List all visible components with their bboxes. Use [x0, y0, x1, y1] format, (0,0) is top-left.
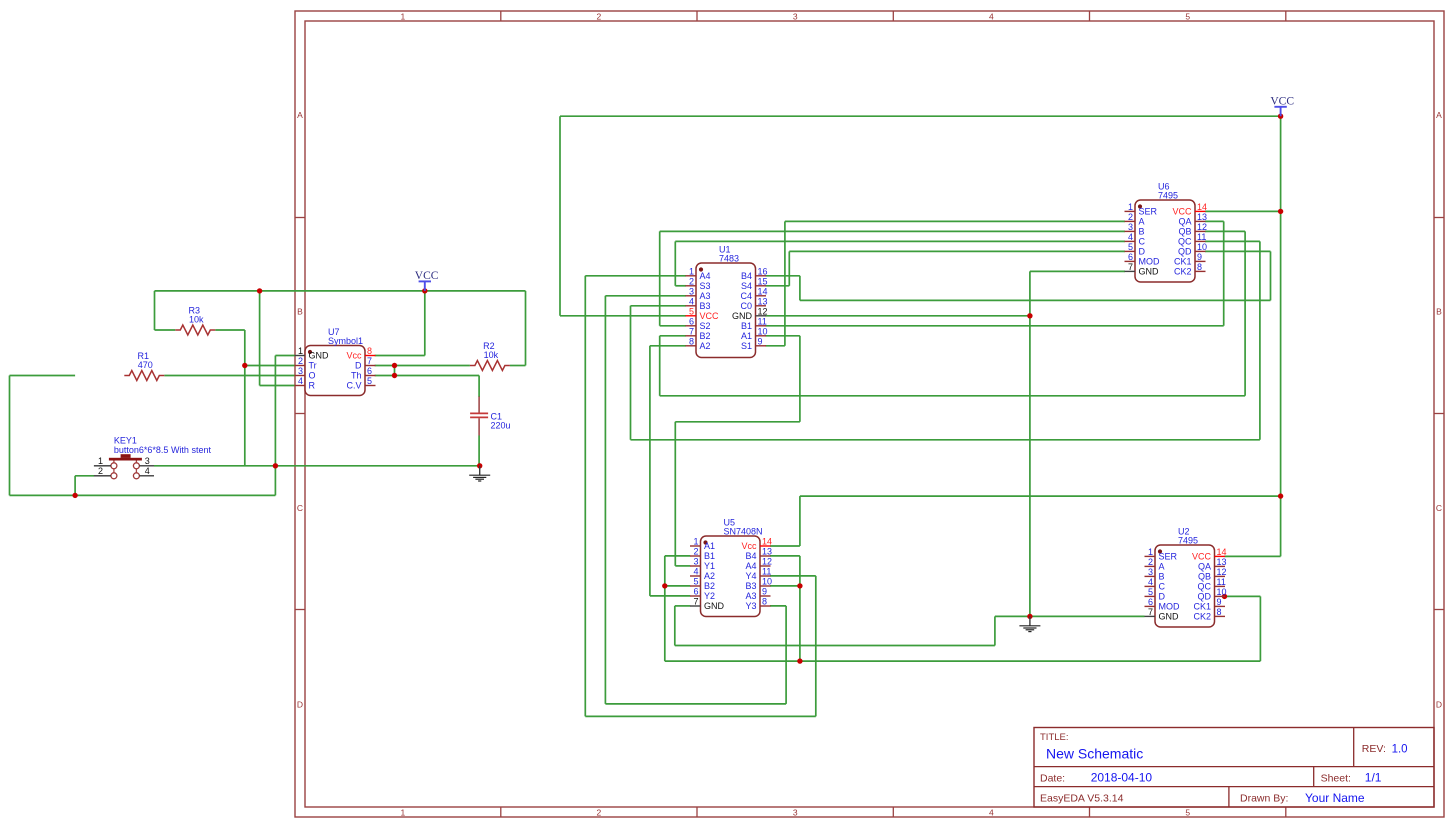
wire A4-Y4 bottom	[585, 715, 816, 717]
svg-text:7: 7	[689, 326, 694, 336]
svg-text:4: 4	[693, 567, 698, 577]
wire Y4 vertical	[815, 576, 817, 717]
wire U1 A1 pin10	[766, 335, 800, 337]
svg-text:1: 1	[689, 266, 694, 276]
svg-text:Y1: Y1	[704, 561, 715, 571]
svg-text:10: 10	[1197, 242, 1207, 252]
junction U5 Vcc feed	[1278, 493, 1283, 498]
frame column ticks bottom	[500, 807, 502, 817]
svg-text:14: 14	[762, 537, 772, 547]
ground GND near C1	[469, 466, 490, 481]
svg-text:2: 2	[1148, 557, 1153, 567]
svg-text:C.V: C.V	[346, 381, 361, 391]
wire gnd rail riser	[274, 466, 276, 496]
svg-text:9: 9	[762, 587, 767, 597]
svg-text:10k: 10k	[484, 350, 499, 360]
junction VCC flag right	[1278, 114, 1283, 119]
svg-text:12: 12	[1197, 222, 1207, 232]
wire KEY pin3 to ground rail	[154, 465, 480, 467]
svg-text:4: 4	[989, 808, 994, 818]
svg-text:3: 3	[1148, 567, 1153, 577]
IC U6	[1125, 182, 1208, 283]
wire U1 pin5 VCC	[560, 315, 686, 317]
junction U5 B1-B2	[662, 583, 667, 588]
svg-text:3: 3	[689, 286, 694, 296]
junction VCC left rail	[257, 288, 262, 293]
wire U7 pin4 R vertical	[259, 291, 261, 386]
svg-text:GND: GND	[1159, 612, 1180, 622]
pushbutton KEY1	[94, 436, 212, 479]
svg-text:QC: QC	[1178, 237, 1192, 247]
wire U5 B1 pin2	[665, 555, 690, 557]
svg-text:GND: GND	[704, 601, 725, 611]
svg-text:TITLE:: TITLE:	[1040, 732, 1069, 743]
svg-text:B: B	[1436, 307, 1442, 317]
ground GND main	[1019, 616, 1040, 631]
svg-text:CK1: CK1	[1174, 257, 1192, 267]
svg-text:4: 4	[145, 466, 150, 476]
svg-text:12: 12	[1217, 567, 1227, 577]
svg-text:SER: SER	[1139, 207, 1158, 217]
svg-text:QC: QC	[1198, 582, 1212, 592]
svg-text:S3: S3	[700, 281, 711, 291]
wire U5 GND link	[995, 615, 1030, 617]
svg-text:1: 1	[401, 808, 406, 818]
wire A2-Y2 vertical	[649, 346, 651, 596]
svg-text:Tr: Tr	[309, 361, 317, 371]
svg-text:6: 6	[693, 587, 698, 597]
wire U6 D pin5	[789, 250, 1125, 252]
junction U5 B4-B3	[797, 583, 802, 588]
svg-text:1.0: 1.0	[1392, 744, 1408, 756]
wire U6 A pin2	[785, 220, 1125, 222]
svg-text:13: 13	[1197, 212, 1207, 222]
svg-text:5: 5	[1185, 12, 1190, 22]
svg-text:3: 3	[145, 456, 150, 466]
svg-text:5: 5	[689, 306, 694, 316]
svg-text:9: 9	[758, 336, 763, 346]
wire R2 top vertical	[525, 291, 527, 366]
svg-text:Drawn By:: Drawn By:	[1240, 793, 1288, 805]
junction D tie	[392, 363, 397, 368]
wire U6 QC pin11	[1205, 240, 1260, 242]
svg-text:7: 7	[693, 597, 698, 607]
svg-text:3: 3	[793, 808, 798, 818]
svg-text:2: 2	[1128, 212, 1133, 222]
svg-text:6: 6	[367, 366, 372, 376]
svg-text:1: 1	[401, 12, 406, 22]
svg-text:A2: A2	[704, 571, 715, 581]
svg-text:6: 6	[1148, 597, 1153, 607]
wire U6 QA pin13	[1205, 220, 1224, 222]
wire R3 left vertical	[154, 291, 156, 330]
wire U5 GND horizontal	[675, 645, 995, 647]
svg-text:D: D	[1436, 700, 1442, 710]
svg-text:220u: 220u	[491, 421, 511, 431]
wire U1 S1 pin9	[766, 345, 785, 347]
svg-text:3: 3	[1128, 222, 1133, 232]
svg-text:1: 1	[1148, 547, 1153, 557]
svg-text:8: 8	[1197, 262, 1202, 272]
wire U5 Y2 pin6	[650, 595, 690, 597]
wire U6 GND vertical	[1029, 271, 1031, 616]
svg-text:2: 2	[689, 276, 694, 286]
svg-text:A: A	[297, 110, 303, 120]
wire A3-Y3 bottom	[605, 703, 786, 705]
svg-text:Th: Th	[351, 371, 362, 381]
IC U5	[690, 518, 772, 617]
wire U7 pin8 Vcc	[375, 355, 425, 357]
svg-text:VCC: VCC	[1270, 95, 1294, 107]
wire VCC rail left	[155, 290, 526, 292]
svg-text:470: 470	[138, 360, 153, 370]
wire Vcc horizontal	[800, 495, 1281, 497]
wire U6 GND pin7	[1030, 270, 1125, 272]
sheet frame inner border	[305, 21, 1434, 807]
wire R3 left link	[155, 329, 176, 331]
wire KEY pin2 vertical	[74, 476, 76, 496]
svg-text:B1: B1	[704, 551, 715, 561]
svg-text:5: 5	[367, 376, 372, 386]
wire U6 QB pin12	[1205, 230, 1245, 232]
wire QD vertical	[1270, 251, 1272, 300]
svg-text:13: 13	[1217, 557, 1227, 567]
svg-text:3: 3	[793, 12, 798, 22]
wire B3-QC horizontal	[631, 439, 1260, 441]
junction Th tie	[392, 373, 397, 378]
wire U1 A3 pin3	[605, 295, 686, 297]
wire U5 Y3 pin8	[770, 605, 786, 607]
wire U2 QD vertical	[1259, 596, 1261, 661]
wire U7 pin4 R	[260, 385, 295, 387]
wire U5 Y1 pin3	[675, 565, 690, 567]
svg-text:C: C	[1139, 237, 1146, 247]
wire U5 Vcc pin14	[770, 545, 800, 547]
wire U1 A2 pin8	[650, 345, 686, 347]
svg-text:C: C	[1436, 503, 1442, 513]
wire U1 S2 pin6	[660, 325, 686, 327]
svg-text:B: B	[297, 307, 303, 317]
wire U1 A4 pin1	[585, 275, 686, 277]
wire Y1 vertical	[674, 422, 676, 566]
svg-text:5: 5	[693, 577, 698, 587]
svg-text:C4: C4	[740, 291, 752, 301]
junction gnd rail left	[273, 463, 278, 468]
frame row ticks left	[295, 217, 305, 219]
wire U5 B3 pin10	[770, 585, 800, 587]
svg-text:2: 2	[298, 356, 303, 366]
wire B4-QD horizontal	[800, 299, 1271, 301]
svg-text:11: 11	[758, 316, 767, 326]
svg-text:4: 4	[1128, 232, 1133, 242]
power flag VCC right	[1270, 95, 1294, 116]
svg-text:GND: GND	[309, 351, 330, 361]
frame row ticks right	[1434, 217, 1444, 219]
svg-text:SN7408N: SN7408N	[724, 527, 763, 537]
wire feedback bottom rail	[665, 660, 1261, 662]
svg-text:Sheet:: Sheet:	[1321, 773, 1351, 785]
svg-text:1/1: 1/1	[1365, 771, 1382, 785]
wire C1 bottom link	[478, 436, 480, 466]
junction feedback rail	[797, 658, 802, 663]
svg-text:8: 8	[367, 346, 372, 356]
svg-text:SER: SER	[1159, 552, 1178, 562]
svg-text:3: 3	[693, 557, 698, 567]
svg-text:B3: B3	[745, 581, 756, 591]
svg-text:14: 14	[1197, 202, 1207, 212]
wire A4-Y4 vertical	[584, 276, 586, 717]
svg-text:6: 6	[689, 316, 694, 326]
svg-text:A4: A4	[700, 271, 711, 281]
svg-text:10: 10	[1217, 587, 1227, 597]
svg-text:10k: 10k	[189, 315, 204, 325]
svg-text:S2: S2	[700, 321, 711, 331]
svg-text:1: 1	[693, 537, 698, 547]
wire C1 top link	[478, 376, 480, 398]
junction VCC flag left	[422, 288, 427, 293]
svg-text:7: 7	[367, 356, 372, 366]
junction U6 VCC	[1278, 209, 1283, 214]
wire QC vertical	[1259, 241, 1261, 439]
svg-text:New Schematic: New Schematic	[1046, 746, 1143, 762]
svg-text:4: 4	[298, 376, 303, 386]
IC U2	[1145, 527, 1227, 628]
IC U1	[686, 245, 768, 358]
svg-text:8: 8	[689, 336, 694, 346]
wire U2 QD pin10	[1225, 595, 1261, 597]
svg-text:2018-04-10: 2018-04-10	[1091, 771, 1153, 785]
svg-text:5: 5	[1128, 242, 1133, 252]
wire R3 right link	[215, 329, 245, 331]
wire A1-Y1 vertical	[799, 336, 801, 422]
wire U7 pin6 Th to C1	[375, 375, 480, 377]
wire B4-B3 vertical	[799, 556, 801, 661]
wire U7 pin2 Tr	[245, 365, 295, 367]
svg-text:9: 9	[1197, 252, 1202, 262]
svg-text:15: 15	[758, 276, 768, 286]
junction main ground	[1027, 614, 1032, 619]
svg-text:2: 2	[597, 12, 602, 22]
svg-text:A2: A2	[700, 341, 711, 351]
wire R2 right lead link	[510, 365, 526, 367]
svg-text:button6*6*8.5 With stent: button6*6*8.5 With stent	[114, 445, 212, 455]
svg-text:QA: QA	[1198, 562, 1211, 572]
wire U5 Y4 pin11	[770, 575, 816, 577]
svg-text:2: 2	[597, 808, 602, 818]
wire U1 GND pin12	[766, 315, 1030, 317]
svg-text:8: 8	[762, 597, 767, 607]
junction C1 ground	[477, 463, 482, 468]
svg-text:16: 16	[758, 266, 768, 276]
svg-text:10: 10	[758, 326, 768, 336]
svg-text:4: 4	[1148, 577, 1153, 587]
wire U5 GND pin7	[675, 605, 690, 607]
wire S4-D vertical	[788, 251, 790, 285]
capacitor C1	[470, 397, 510, 436]
svg-text:D: D	[1159, 592, 1166, 602]
svg-text:C0: C0	[740, 301, 752, 311]
frame column ticks top	[500, 11, 502, 21]
resistor R2	[470, 341, 510, 371]
svg-text:VCC: VCC	[1172, 207, 1192, 217]
svg-text:A: A	[1159, 562, 1165, 572]
power flag VCC left	[415, 270, 439, 291]
wire B1-B2 vertical	[664, 556, 666, 661]
svg-text:5: 5	[1148, 587, 1153, 597]
junction key rail	[72, 493, 77, 498]
wire U5 GND riser	[994, 616, 996, 645]
svg-text:Y4: Y4	[745, 571, 756, 581]
wire S2-B vertical	[659, 231, 661, 325]
svg-text:C: C	[1159, 582, 1166, 592]
svg-text:10: 10	[762, 577, 772, 587]
wire U7 GND vertical	[274, 356, 276, 466]
wire U7 Vcc vertical	[424, 291, 426, 356]
svg-text:Your Name: Your Name	[1305, 791, 1365, 805]
svg-text:QB: QB	[1198, 572, 1211, 582]
svg-text:13: 13	[762, 547, 772, 557]
junction U2 QD	[1222, 594, 1227, 599]
wire B2-QB horizontal	[660, 395, 1245, 397]
svg-text:A3: A3	[700, 291, 711, 301]
svg-text:R: R	[309, 381, 316, 391]
wire U1 B4 pin16	[766, 275, 800, 277]
wire U1 S3 pin2	[675, 285, 686, 287]
wire U1 B3 pin4	[631, 305, 687, 307]
svg-text:A: A	[1139, 217, 1145, 227]
wire KEY pin2 link	[75, 475, 94, 477]
svg-text:C: C	[297, 503, 303, 513]
wire Vcc riser	[799, 496, 801, 546]
wire U1 B1 pin11	[766, 325, 1224, 327]
svg-text:B4: B4	[745, 551, 756, 561]
svg-text:14: 14	[758, 286, 768, 296]
svg-text:CK1: CK1	[1193, 602, 1211, 612]
svg-text:MOD: MOD	[1159, 602, 1180, 612]
svg-text:B4: B4	[741, 271, 752, 281]
svg-text:D: D	[1139, 247, 1146, 257]
svg-text:2: 2	[693, 547, 698, 557]
svg-text:B: B	[1139, 227, 1145, 237]
svg-text:1: 1	[298, 346, 303, 356]
svg-text:EasyEDA V5.3.14: EasyEDA V5.3.14	[1040, 793, 1124, 805]
wire left vertical	[9, 376, 11, 496]
junction R3-Tr	[242, 363, 247, 368]
wire U2 pin14 VCC	[1225, 555, 1281, 557]
svg-text:QA: QA	[1178, 217, 1191, 227]
wire QA vertical	[1223, 221, 1225, 325]
svg-text:VCC: VCC	[1192, 552, 1212, 562]
wire A3-Y3 vertical	[604, 296, 606, 704]
wire U6 C pin4	[675, 240, 1125, 242]
wire VCC main vertical	[1280, 116, 1282, 556]
svg-text:7483: 7483	[719, 254, 739, 264]
svg-text:4: 4	[989, 12, 994, 22]
svg-text:5: 5	[1185, 808, 1190, 818]
wire S3-C vertical	[674, 241, 676, 285]
IC U7	[295, 327, 376, 396]
svg-text:9: 9	[1217, 597, 1222, 607]
svg-text:S4: S4	[741, 281, 752, 291]
svg-text:QD: QD	[1178, 247, 1192, 257]
wire U6 pin14 VCC	[1205, 210, 1281, 212]
svg-text:11: 11	[1217, 577, 1226, 587]
svg-text:11: 11	[1197, 232, 1206, 242]
svg-text:QB: QB	[1178, 227, 1191, 237]
svg-text:3: 3	[298, 366, 303, 376]
svg-text:A1: A1	[741, 331, 752, 341]
svg-text:A4: A4	[745, 561, 756, 571]
svg-text:Vcc: Vcc	[741, 541, 757, 551]
svg-text:B3: B3	[700, 301, 711, 311]
svg-text:S1: S1	[741, 341, 752, 351]
svg-text:11: 11	[762, 567, 771, 577]
wire U5 B4 pin13	[770, 555, 800, 557]
svg-text:A1: A1	[704, 541, 715, 551]
resistor R1	[124, 351, 164, 381]
svg-text:14: 14	[1217, 547, 1227, 557]
svg-text:D: D	[297, 700, 303, 710]
svg-text:MOD: MOD	[1139, 257, 1160, 267]
svg-text:12: 12	[762, 557, 772, 567]
junction U1 GND to U6	[1027, 313, 1032, 318]
svg-text:A: A	[1436, 110, 1442, 120]
wire U7 pin1 GND	[275, 355, 294, 357]
svg-text:B2: B2	[700, 331, 711, 341]
wire D-Th tie	[394, 366, 396, 376]
svg-text:Y2: Y2	[704, 591, 715, 601]
svg-text:13: 13	[758, 296, 768, 306]
wire U5 GND vertical	[674, 606, 676, 646]
wire A1-Y1 horizontal	[675, 421, 800, 423]
svg-text:GND: GND	[1139, 267, 1160, 277]
svg-text:7495: 7495	[1178, 536, 1198, 546]
svg-text:Symbol1: Symbol1	[328, 336, 363, 346]
svg-text:B2: B2	[704, 581, 715, 591]
wire VCC top rail	[560, 115, 1281, 117]
wire bottom key rail	[10, 494, 276, 496]
wire U1 S4 pin15	[766, 285, 790, 287]
title block	[1034, 728, 1434, 808]
svg-text:Y3: Y3	[745, 601, 756, 611]
svg-text:CK2: CK2	[1174, 267, 1192, 277]
svg-text:7: 7	[1148, 607, 1153, 617]
svg-text:8: 8	[1217, 607, 1222, 617]
wire B2-QB vertical	[659, 336, 661, 396]
wire left stub horizontal	[10, 375, 76, 377]
wire R1 to U7 pin3 O	[164, 375, 294, 377]
wire U1 VCC vertical	[559, 116, 561, 316]
wire U7 pin7 D to R2	[375, 365, 470, 367]
svg-text:REV:: REV:	[1362, 743, 1386, 755]
svg-text:Vcc: Vcc	[346, 351, 362, 361]
wire U6 B pin3	[660, 230, 1125, 232]
svg-text:QD: QD	[1198, 592, 1212, 602]
svg-text:2: 2	[98, 466, 103, 476]
wire S1-A vertical	[784, 221, 786, 345]
wire U1 B2 pin7	[660, 335, 686, 337]
svg-text:4: 4	[689, 296, 694, 306]
wire Y3 vertical	[785, 606, 787, 704]
wire U6 QD pin10	[1205, 250, 1271, 252]
svg-text:6: 6	[1128, 252, 1133, 262]
svg-text:CK2: CK2	[1193, 612, 1211, 622]
wire B3-QC vertical	[630, 306, 632, 440]
svg-text:O: O	[309, 371, 316, 381]
svg-text:Date:: Date:	[1040, 773, 1065, 785]
svg-text:12: 12	[758, 306, 768, 316]
svg-text:A3: A3	[745, 591, 756, 601]
